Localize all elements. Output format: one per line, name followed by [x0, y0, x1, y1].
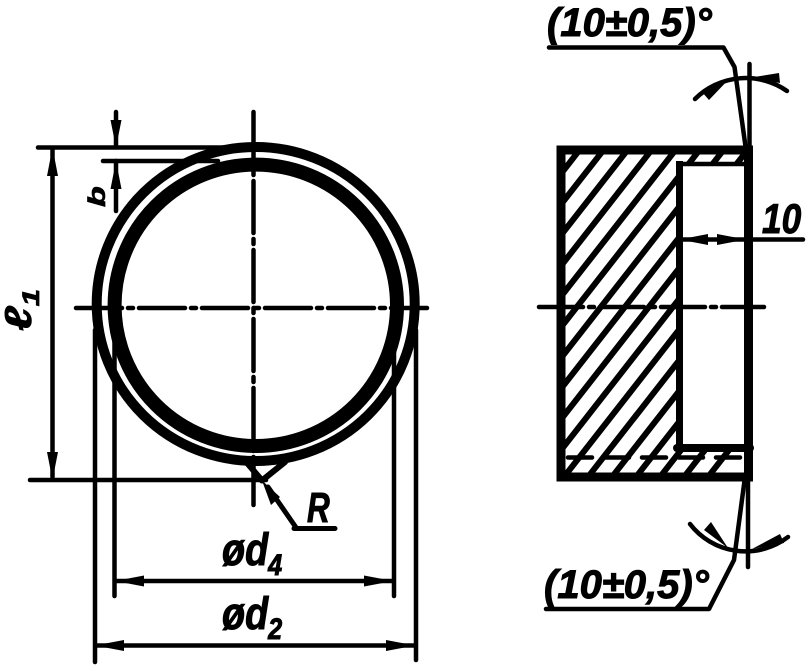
- svg-text:(10±0,5)°: (10±0,5)°: [547, 1, 713, 45]
- dimension 10 line: [681, 237, 803, 242]
- d4 left arrow: [115, 576, 144, 587]
- d4 right arrow: [364, 576, 393, 587]
- extension line d4 right: [392, 330, 397, 596]
- hatch lines: [306, 111, 810, 500]
- bottom angle arc: [690, 524, 788, 551]
- hidden groove line (dashed): [568, 455, 746, 460]
- cavity top edge: [679, 162, 747, 167]
- 10 left arrow: [680, 234, 709, 245]
- dimension b lower arrow (pointing up to second line): [114, 161, 119, 211]
- svg-text:ød2: ød2: [222, 588, 283, 646]
- notch radius R at bottom of outer circle: [245, 461, 285, 481]
- inner circle d4: [115, 165, 397, 446]
- d2 right arrow: [386, 640, 415, 651]
- extension line d4 left: [112, 330, 117, 596]
- extension line, top of inner circle (b bottom): [103, 159, 218, 164]
- d2 left arrow: [95, 640, 124, 651]
- vertical center line (left view): [251, 112, 256, 505]
- top angle arc: [695, 78, 787, 99]
- svg-text:R: R: [307, 484, 330, 532]
- dimension d4 line: [116, 579, 392, 584]
- extension line d2 left: [93, 330, 98, 662]
- l1 top arrow: [47, 148, 58, 177]
- svg-text:ød4: ød4: [222, 524, 282, 582]
- bottom angle left arrow: [704, 522, 728, 548]
- cavity bottom edge: [677, 444, 750, 452]
- dimension d2 line: [96, 643, 414, 648]
- cavity left wall: [676, 161, 683, 448]
- dimension l1 line: [50, 150, 55, 477]
- 10 right arrow: [717, 234, 746, 245]
- svg-text:b: b: [84, 186, 111, 207]
- l1 bottom arrow: [47, 452, 58, 480]
- horizontal center line (left view): [76, 306, 427, 311]
- horizontal center line (right view): [539, 305, 764, 310]
- dimension b upper arrow (pointing down to top line): [114, 112, 119, 147]
- bottom angle leader and slanted line: [546, 477, 745, 609]
- bottom angle vertical extension: [746, 477, 751, 567]
- leader R underline: [294, 526, 335, 531]
- svg-text:(10±0,5)°: (10±0,5)°: [544, 563, 710, 607]
- svg-text:ℓ1: ℓ1: [0, 289, 44, 331]
- top angle vertical extension: [747, 64, 752, 150]
- top angle leader and slanted line: [549, 48, 746, 151]
- svg-text:10: 10: [762, 196, 802, 243]
- extension line, top of outer circle (l1 / b top): [38, 145, 262, 150]
- leader R arrow: [262, 481, 280, 506]
- section outline rectangle: [561, 150, 749, 477]
- extension line d2 right: [414, 330, 419, 660]
- top angle left arrow: [702, 78, 730, 100]
- bottom angle right arrow: [752, 534, 784, 549]
- extension line, bottom notch (l1 bottom): [30, 478, 266, 483]
- outer circle d2: [97, 147, 415, 461]
- top angle right arrow: [751, 73, 780, 83]
